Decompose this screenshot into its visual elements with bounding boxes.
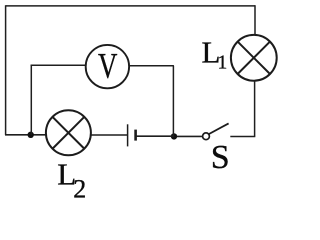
battery short (negative) plate [134, 130, 137, 141]
wire: switch to right junction [174, 135, 202, 137]
wire: voltmeter branch right horizontal [129, 65, 174, 67]
wire: right junction to battery positive plate [136, 135, 174, 137]
wire: voltmeter branch right vertical [172, 66, 174, 137]
wire: outer top horizontal [6, 5, 255, 7]
svg-text:S: S [211, 139, 230, 176]
svg-text:1: 1 [218, 53, 228, 74]
node: right junction dot [171, 133, 177, 139]
wire: outer left vertical [5, 5, 7, 135]
wire: voltmeter branch left horizontal [31, 64, 86, 66]
wire: battery to lamp L2 [91, 134, 127, 136]
switch S pivot circle [203, 133, 210, 140]
wire: right vertical below lamp L1 [254, 81, 256, 137]
svg-text:V: V [98, 46, 117, 86]
battery long (positive) plate [127, 124, 129, 146]
wire: bottom-right horizontal to switch [230, 136, 255, 138]
node: left junction dot [28, 132, 34, 138]
switch S blade [209, 123, 229, 134]
lamp L1 [231, 35, 277, 81]
lamp L2 [46, 110, 91, 155]
svg-text:2: 2 [73, 174, 86, 202]
voltmeter U1 circle [86, 45, 129, 88]
wire: right top vertical into lamp L1 [254, 5, 256, 35]
wire: bottom-left horizontal to lamp L2 [5, 134, 46, 136]
wire: voltmeter branch left vertical [30, 65, 32, 135]
